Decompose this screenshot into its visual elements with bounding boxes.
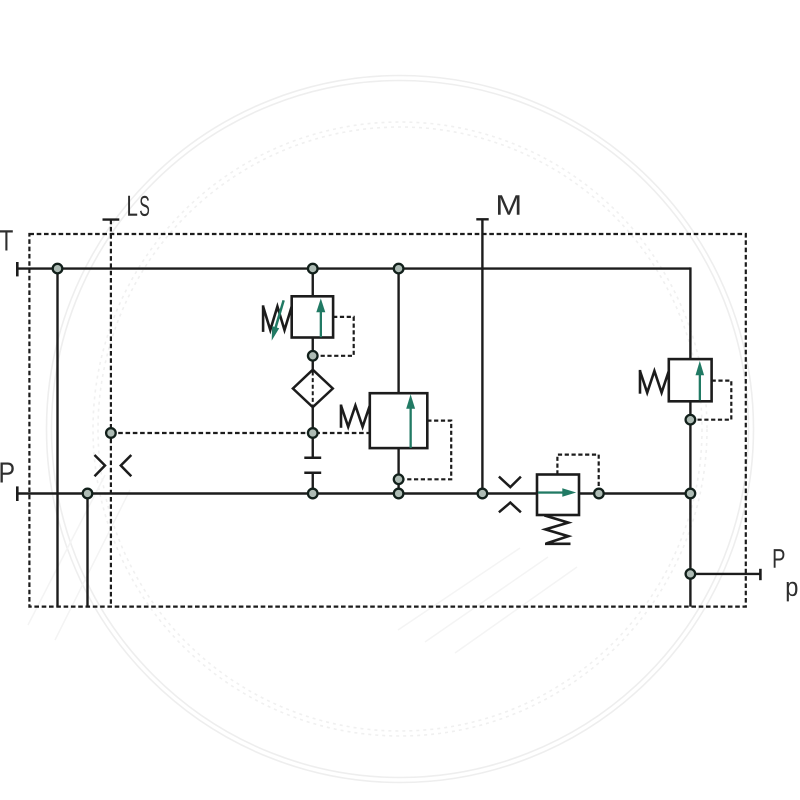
valve V1 body (pilot relief, adjustable) — [292, 296, 333, 337]
port M tick — [476, 218, 488, 220]
valve V4 spring — [544, 515, 570, 543]
wire pump drop line — [86, 494, 88, 607]
watermark circle inner dotted — [93, 122, 707, 736]
node V4 pilot junction — [594, 489, 604, 499]
node P-right riser junction — [686, 489, 696, 499]
watermark circle outer — [47, 76, 754, 783]
valve V1 spring — [263, 305, 292, 332]
valve V2 body (pressure compensator) — [370, 393, 428, 448]
wire right riser upper — [689, 267, 691, 360]
port M label — [498, 195, 519, 215]
plug upper bar — [304, 457, 321, 460]
port T tick — [16, 262, 19, 276]
port P label — [1, 463, 14, 483]
port P tick — [16, 486, 19, 501]
enclosure dashed border — [29, 234, 745, 607]
port Pp label p — [787, 582, 798, 602]
node V3 pilot junction — [686, 415, 696, 425]
port T label — [0, 230, 13, 250]
node filter-LS junction — [308, 428, 318, 438]
orifice on P rail — [499, 477, 521, 513]
plug lower bar — [304, 472, 321, 475]
filter F1 — [293, 370, 333, 408]
wire LS pilot vertical dashed — [110, 220, 112, 607]
watermark hatch lines — [28, 475, 577, 653]
pilot line valve V4 dashed — [557, 455, 598, 488]
valve V3 spring — [640, 370, 669, 394]
node T-V2 junction — [394, 264, 404, 274]
wire valve V2 branch upper — [397, 269, 399, 394]
wire valve V1 branch upper — [312, 269, 314, 297]
pilot line valve V1 dashed — [319, 317, 354, 356]
node Pp port junction — [686, 569, 696, 579]
wire tank drop line — [56, 269, 58, 607]
pilot line valve V3 dashed — [696, 381, 731, 420]
wire M vertical — [481, 219, 483, 493]
valve V1 adjustment arrow — [272, 300, 285, 341]
wire valve V2 branch lower — [397, 448, 399, 494]
valve V4 flow arrow — [538, 488, 576, 497]
node V2 pilot junction — [394, 475, 404, 485]
pilot line valve V2 dashed — [404, 421, 451, 480]
valve V4 body (flow control) — [537, 475, 579, 516]
port Pp label P — [774, 549, 785, 568]
node T-tank junction — [53, 264, 63, 274]
valve V3 body (relief) — [669, 359, 712, 401]
wire T rail — [17, 267, 690, 269]
port LS label — [128, 196, 149, 216]
node P-V2 junction — [394, 489, 404, 499]
valve V1 flow arrow — [316, 298, 325, 337]
node P-plug junction — [308, 489, 318, 499]
node P-M junction — [478, 489, 488, 499]
wire valve V1 branch lower — [312, 337, 314, 371]
orifice on LS line — [95, 455, 132, 476]
valve V3 flow arrow — [696, 361, 705, 400]
wire plug to P rail — [312, 473, 314, 494]
wire P rail — [17, 492, 690, 494]
valve V2 flow arrow — [406, 394, 415, 448]
valve V2 spring — [341, 405, 370, 428]
wire port Pp stub — [690, 573, 760, 575]
node LS line junction — [106, 428, 116, 438]
wire right riser lower — [689, 401, 691, 607]
node V1 pilot junction — [308, 351, 318, 361]
node T-V1 junction — [308, 264, 318, 274]
node P-pump junction — [83, 489, 93, 499]
port LS tick — [103, 218, 120, 220]
wire filter to LS node — [312, 407, 314, 458]
wire LS horizontal dashed — [111, 432, 370, 434]
port Pp tick — [759, 569, 762, 580]
